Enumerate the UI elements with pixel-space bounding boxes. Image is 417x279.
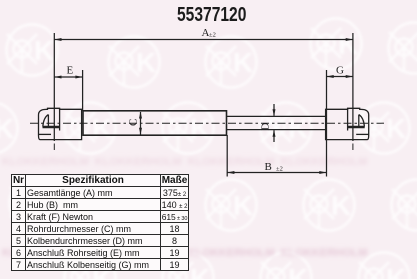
svg-text:E: E <box>67 65 74 77</box>
svg-text:±2: ±2 <box>209 32 216 39</box>
svg-text:G: G <box>336 65 344 77</box>
svg-text:KLOKKERHOLM KLOKKERHOLM KLOK: KLOKKERHOLM KLOKKERHOLM KLOKKERHOLM KLOK… <box>2 156 367 168</box>
svg-text:C: C <box>128 119 140 126</box>
svg-text:D: D <box>260 123 272 131</box>
svg-text:B: B <box>265 161 272 173</box>
svg-text:±2: ±2 <box>276 166 283 173</box>
